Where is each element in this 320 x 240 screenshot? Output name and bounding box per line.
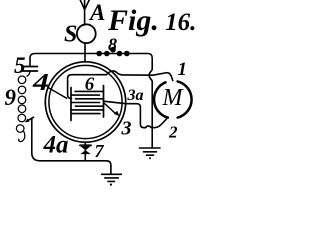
coil 9 xyxy=(16,72,30,142)
grid 6 rungs xyxy=(71,91,104,113)
svg-text:8: 8 xyxy=(108,35,117,55)
svg-text:1: 1 xyxy=(178,59,188,80)
wire S to tube top xyxy=(84,44,86,63)
tube envelope inner xyxy=(49,65,122,138)
svg-text:3: 3 xyxy=(121,118,132,140)
svg-text:4: 4 xyxy=(32,70,49,96)
wire 3a from tube to junction xyxy=(104,101,153,128)
grid lead wire inside tube, exits right over envelope bump to motor terminal 1 xyxy=(68,71,173,98)
svg-text:6: 6 xyxy=(85,74,95,95)
wire coil tap down to bottom bus xyxy=(27,117,107,161)
svg-text:M: M xyxy=(162,85,185,111)
grid 6 ladder left rail xyxy=(70,88,72,121)
svg-text:A: A xyxy=(88,0,105,25)
wire top bus with corners, right vertical bus with crossover hop, down to ground junction xyxy=(30,54,152,148)
svg-text:3a: 3a xyxy=(127,87,144,104)
tube envelope outer xyxy=(45,62,125,142)
detector 7 triangles xyxy=(80,146,91,150)
right ground xyxy=(140,148,161,155)
right ground dot xyxy=(149,157,151,159)
antenna A xyxy=(80,0,90,10)
wire antenna to spark gap S xyxy=(84,0,86,25)
detector 7 bar xyxy=(80,144,91,146)
wire tube bottom through detector to bottom bus xyxy=(84,142,86,161)
capacitor 5 xyxy=(23,67,38,72)
svg-text:S: S xyxy=(64,22,77,48)
left ground xyxy=(102,174,122,181)
svg-text:7: 7 xyxy=(95,141,105,161)
motor lead 2 from junction xyxy=(152,119,166,128)
battery 8 dots xyxy=(96,47,129,56)
left ground dot xyxy=(110,184,112,186)
arrowhead of 3 xyxy=(114,111,120,117)
svg-text:Fig. 16.: Fig. 16. xyxy=(107,4,196,37)
svg-text:9: 9 xyxy=(5,85,17,110)
grid 6 ladder right rail xyxy=(103,86,105,118)
wire 3 diagonal with arrowhead xyxy=(104,103,117,115)
svg-text:2: 2 xyxy=(168,123,178,142)
left ground lead xyxy=(107,161,111,175)
leader from 4 into tube xyxy=(48,88,67,99)
tap arrowhead on coil 9 xyxy=(25,119,30,123)
motor M arcs xyxy=(178,81,192,117)
spark gap S xyxy=(77,24,96,43)
svg-text:5: 5 xyxy=(14,53,26,78)
